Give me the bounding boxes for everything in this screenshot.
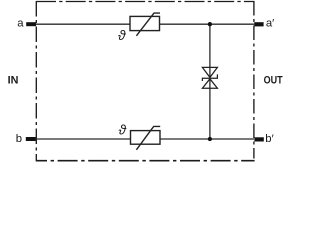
svg-text:OUT: OUT bbox=[264, 75, 283, 87]
diode D1 lower triangle bbox=[202, 79, 217, 88]
junction node (top) bbox=[208, 22, 212, 26]
junction node (bottom) bbox=[208, 137, 212, 141]
terminal b' bbox=[254, 137, 263, 141]
enclosure border left (dash-dot) bbox=[35, 1, 37, 161]
svg-text:ϑ: ϑ bbox=[119, 123, 127, 138]
terminal b bbox=[26, 137, 36, 141]
enclosure border right (dash-dot) bbox=[253, 1, 255, 159]
svg-text:b: b bbox=[16, 133, 22, 145]
thermal disconnect resistor RT2 (bottom) bbox=[131, 126, 161, 149]
svg-text:b′: b′ bbox=[265, 133, 273, 145]
terminal a bbox=[26, 22, 36, 26]
svg-text:a′: a′ bbox=[266, 17, 274, 29]
terminal a' bbox=[254, 22, 263, 26]
thermal disconnect resistor RT1 (top) bbox=[130, 13, 160, 36]
diode D1 upper triangle bbox=[202, 67, 217, 77]
svg-text:ϑ: ϑ bbox=[118, 28, 126, 43]
svg-text:a: a bbox=[17, 18, 24, 30]
wire b (bottom-left segment) bbox=[36, 138, 131, 140]
wire a (top-left segment) bbox=[36, 23, 130, 25]
enclosure border top (dash-dot) bbox=[36, 1, 255, 3]
diode D1 zener bar bbox=[202, 74, 217, 81]
wire b' (bottom-right segment) bbox=[160, 138, 254, 140]
wire (vertical shunt branch) bbox=[209, 24, 211, 139]
wire a' (top-right segment) bbox=[160, 23, 255, 25]
svg-text:IN: IN bbox=[8, 75, 19, 87]
enclosure border bottom (dash-dot) bbox=[36, 160, 255, 162]
bidirectional suppressor diode D1 (anti-series zener pair) bbox=[202, 67, 217, 88]
